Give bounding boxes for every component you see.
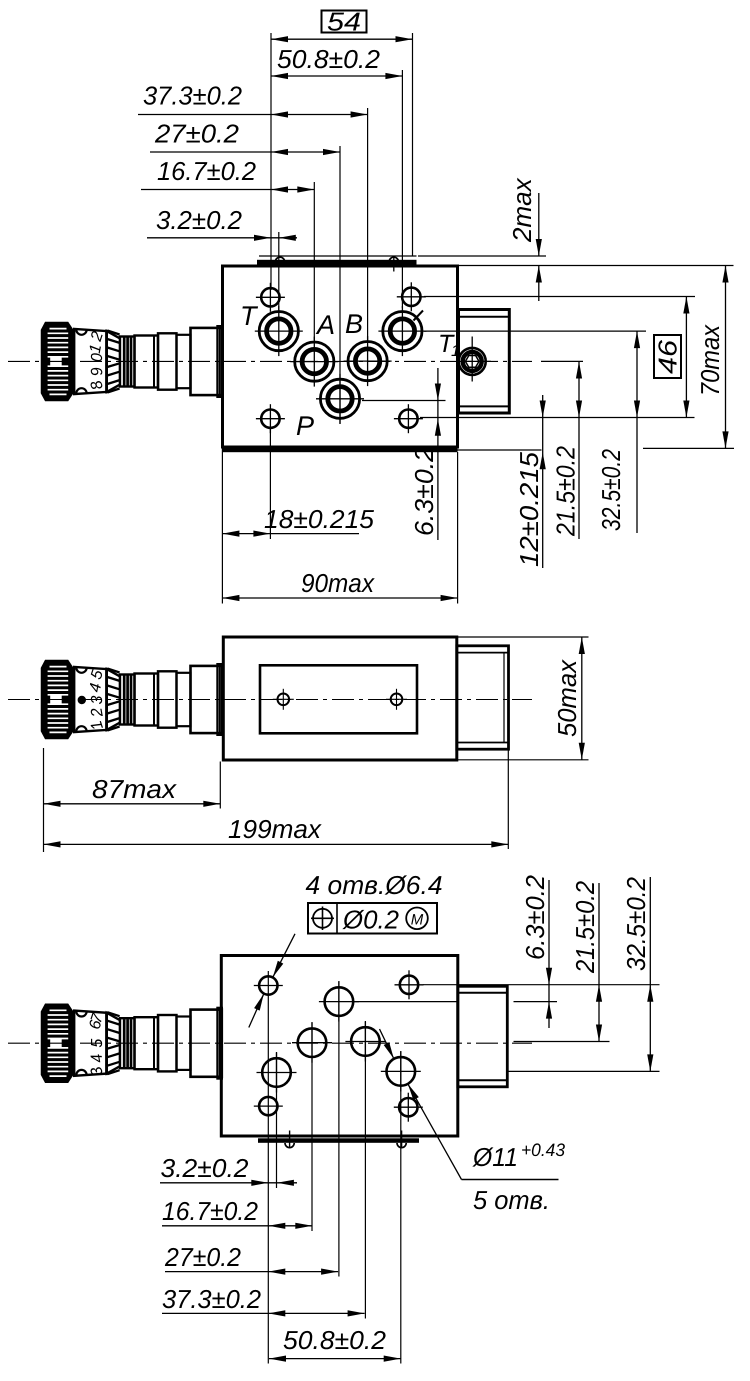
dimension 32.5±0.2 (top view) (596, 331, 640, 533)
svg-text:32.5±0.2: 32.5±0.2 (621, 877, 651, 971)
adjustment knob (42, 661, 222, 739)
svg-text:21.5±0.2: 21.5±0.2 (570, 881, 600, 974)
bottom view: centerline (8, 1042, 532, 1044)
extension line: port B column (367, 108, 369, 340)
svg-text:M: M (411, 912, 424, 929)
svg-text:70max: 70max (695, 324, 725, 396)
port P (316, 374, 364, 424)
extension line: bottom mounting hole row right (420, 417, 695, 419)
mounting hole bottom-right (bottom view) (394, 1093, 423, 1122)
extension line: port X column (401, 70, 403, 308)
dimension 50.8±0.2 (bottom view) (269, 1325, 401, 1362)
bottom view: column line x=268.3 (254, 971, 283, 1364)
top view: gasket pin left (275, 257, 285, 262)
bottom view: row extension holes A/B (514, 1041, 610, 1043)
dimension 50.8±0.2 (271, 44, 402, 79)
extension line: port A column (313, 182, 315, 340)
mounting hole top-left (bottom view) (259, 976, 277, 994)
svg-text:46: 46 (653, 339, 683, 374)
dimension 46 (boxed, top view) (653, 297, 690, 418)
mounting hole bottom-left (top view) (256, 404, 285, 433)
mounting hole top-right (bottom view) (395, 970, 424, 999)
svg-text:50max: 50max (552, 659, 582, 737)
extension line: port T column (278, 232, 280, 312)
side view: port face plate (260, 665, 417, 733)
side view: side attachment block (457, 646, 509, 749)
bottom view: gasket pin left (285, 1131, 294, 1149)
bottom view: column line port B (364, 1021, 366, 1319)
bottom view: gasket pin right (397, 1131, 406, 1149)
top view: gasket pin right (389, 256, 399, 272)
callout: diam 11 +0.43, 5 holes (462, 1140, 566, 1215)
svg-text:50.8±0.2: 50.8±0.2 (283, 1325, 387, 1355)
extension line: T/X port row right (424, 330, 646, 332)
svg-text:6.3±0.2: 6.3±0.2 (409, 446, 439, 536)
svg-text:199max: 199max (228, 814, 322, 844)
top view: side attachment block (459, 310, 510, 414)
svg-text:37.3±0.2: 37.3±0.2 (143, 81, 243, 111)
svg-text:21.5±0.2: 21.5±0.2 (551, 446, 581, 537)
label P (296, 411, 314, 441)
hole X (bottom view) (381, 1051, 421, 1091)
svg-text:5 отв.: 5 отв. (473, 1185, 550, 1215)
svg-text:37.3±0.2: 37.3±0.2 (162, 1284, 262, 1314)
hole T (bottom view) (257, 1053, 297, 1093)
svg-text:87max: 87max (92, 774, 177, 804)
dimension 37.3±0.2 (138, 81, 368, 118)
dimension 27±0.2 (bottom view) (164, 1242, 338, 1275)
top view: top gasket plate edge-on (257, 256, 417, 265)
bottom view: row extension hole P (353, 1001, 557, 1003)
hole P (bottom view) (319, 982, 359, 1022)
port T1 (459, 337, 491, 382)
dimension 18±0.215 (222, 428, 374, 604)
svg-text:54: 54 (327, 7, 361, 37)
svg-text:+0.43: +0.43 (521, 1140, 565, 1160)
mounting hole top-left (top view) (256, 283, 285, 312)
extension line: P row right (362, 400, 446, 402)
port B (344, 336, 392, 386)
callout: 4 holes diam 6.4 (306, 870, 443, 900)
dimension 199max (44, 750, 509, 849)
dimension 6.3±0.2 (bottom view) (520, 874, 552, 1028)
svg-text:6.3±0.2: 6.3±0.2 (520, 874, 550, 960)
dimension 2max (507, 177, 542, 301)
bottom view: valve body block (221, 956, 457, 1137)
extension line: block top right (459, 265, 734, 267)
port A (290, 337, 338, 387)
svg-text:16.7±0.2: 16.7±0.2 (162, 1196, 258, 1226)
side view: face plate hole left (273, 689, 294, 710)
dimension 3.2±0.2 (bottom view) (160, 1153, 297, 1186)
label B (345, 309, 363, 339)
label A (315, 310, 335, 340)
side view: face plate hole right (386, 689, 407, 710)
dimension 3.2±0.2 (147, 205, 297, 241)
dimension 32.5±0.2 (bottom view) (621, 877, 653, 1072)
svg-text:1: 1 (451, 343, 460, 360)
port T (255, 306, 303, 356)
svg-text:18±0.215: 18±0.215 (264, 504, 375, 534)
hole A (bottom view) (292, 1023, 332, 1063)
extension line: plate right edge column (412, 33, 414, 256)
leader line to mounting hole (4 otv) (249, 934, 295, 1028)
position tolerance frame (308, 903, 437, 935)
mounting hole bottom-right (top view) (394, 404, 423, 433)
side view: valve body (223, 637, 456, 760)
side view: centerline (8, 699, 532, 701)
svg-text:27±0.2: 27±0.2 (164, 1242, 241, 1272)
dimension 50max (457, 637, 589, 760)
svg-text:90max: 90max (301, 568, 375, 598)
bottom view: column line port T (276, 1052, 278, 1188)
label T1 (438, 330, 460, 360)
dimension 87max (44, 748, 221, 852)
svg-text:12±0.215: 12±0.215 (514, 451, 544, 567)
svg-text:3.2±0.2: 3.2±0.2 (156, 205, 243, 235)
dimension 6.3±0.2 (top view) (409, 368, 441, 540)
svg-text:16.7±0.2: 16.7±0.2 (157, 156, 257, 186)
bottom view: column line port X (400, 1051, 402, 1364)
svg-text:0: 0 (89, 353, 106, 362)
bottom view: column line port A (311, 1022, 313, 1231)
extension line: bottom plate right (458, 449, 542, 451)
svg-text:T: T (240, 301, 259, 331)
dimension 27±0.2 (150, 119, 340, 156)
top view: centerline horizontal (8, 360, 532, 362)
adjustment knob (42, 323, 222, 401)
bottom view: row extension holes T/X (508, 1070, 660, 1072)
dimension 21.5±0.2 (top view) (551, 362, 583, 540)
adjustment knob (42, 1004, 222, 1082)
extension line: A/B row right segment (541, 360, 583, 362)
svg-text:50.8±0.2: 50.8±0.2 (277, 44, 381, 74)
leader line to hole X (5 otv) (380, 1029, 462, 1180)
extension line: block bottom right far (643, 447, 734, 449)
svg-text:2max: 2max (507, 177, 537, 243)
svg-text:A: A (315, 310, 335, 340)
svg-text:32.5±0.2: 32.5±0.2 (596, 449, 626, 531)
dimension 16.7±0.2 (141, 156, 314, 193)
top view: valve body block (223, 266, 458, 447)
bottom view: gasket plate edge-on (258, 1138, 419, 1143)
svg-text:P: P (296, 411, 314, 441)
extension line: plate top right (418, 255, 546, 257)
svg-text:3.2±0.2: 3.2±0.2 (161, 1153, 250, 1183)
svg-text:Ø11: Ø11 (472, 1142, 518, 1172)
extension line: reference column x=271 (270, 33, 272, 290)
svg-text:B: B (345, 309, 363, 339)
mounting hole top-right (top view) (397, 282, 426, 311)
dimension 70max (top view) (695, 266, 729, 449)
top view: bottom gasket plate edge-on (223, 448, 458, 452)
dimension 90max (222, 452, 457, 604)
svg-text:4 отв.Ø6.4: 4 отв.Ø6.4 (306, 870, 443, 900)
hole B (bottom view) (345, 1022, 385, 1062)
bottom view: column line port P (338, 981, 340, 1277)
port X (378, 306, 426, 356)
dimension 21.5±0.2 (bottom view) (570, 881, 602, 1042)
dimension 12±0.215 (top view) (514, 395, 546, 568)
port X chamfer tick (414, 311, 424, 321)
svg-text:27±0.2: 27±0.2 (154, 119, 240, 149)
bottom view: row extension top holes (423, 984, 660, 986)
label T (240, 301, 259, 331)
dimension 54 (boxed) (271, 7, 413, 43)
svg-text:Ø0.2: Ø0.2 (342, 905, 400, 935)
extension line: top mounting hole row right (424, 296, 695, 298)
bottom view: side attachment block (458, 986, 508, 1087)
dimension 37.3±0.2 (bottom view) (162, 1284, 365, 1317)
dimension 16.7±0.2 (bottom view) (162, 1196, 312, 1229)
extension line: port P column (339, 146, 341, 424)
mounting hole bottom-left (bottom view) (259, 1097, 277, 1115)
